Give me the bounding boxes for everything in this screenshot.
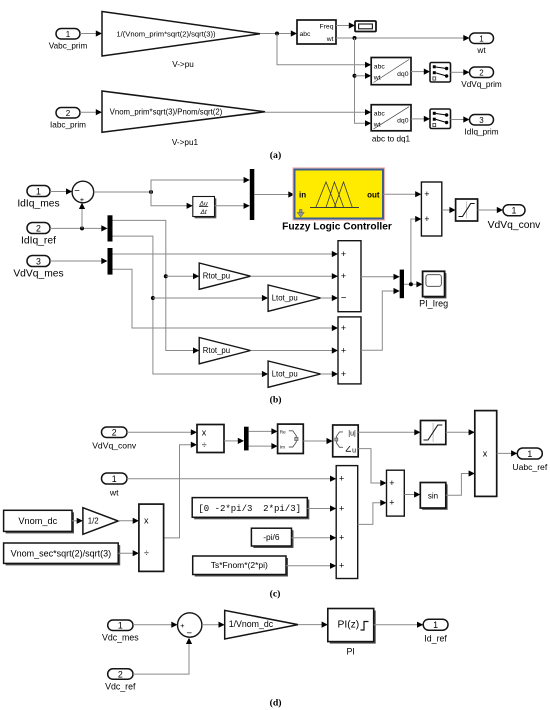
- svg-text:1: 1: [66, 30, 71, 39]
- wire gain V->pu1 to abc input of abc to dq1: [265, 109, 371, 115]
- Real-Imag to Complex block: [278, 424, 304, 453]
- svg-text:1: 1: [433, 620, 438, 630]
- svg-text:+: +: [341, 323, 346, 333]
- wire sum5 to saturation: [442, 207, 456, 213]
- svg-text:x: x: [202, 427, 207, 437]
- wire gain to PI block: [298, 622, 328, 628]
- wire fuzzy out to sum5: [383, 191, 421, 197]
- wire Freq to display: [336, 22, 355, 28]
- wire gain 1/2 to X2: [118, 518, 139, 524]
- selector 2: [430, 109, 451, 129]
- svg-text:3: 3: [36, 257, 41, 267]
- block Freq/wt (PLL): [297, 20, 336, 44]
- svg-text:Rtot_pu: Rtot_pu: [203, 272, 230, 281]
- svg-text:2: 2: [36, 224, 41, 234]
- svg-text:|u|: |u|: [348, 431, 356, 438]
- svg-text:+: +: [341, 249, 346, 259]
- svg-text:wt: wt: [109, 488, 119, 498]
- svg-text:Id_ref: Id_ref: [424, 634, 447, 644]
- wire sum circle out with junction: [94, 177, 250, 209]
- svg-text:+: +: [180, 621, 185, 630]
- product block x/ (divide): [197, 425, 224, 453]
- scope PI_Ireg: [419, 271, 448, 308]
- svg-text:wt: wt: [476, 46, 486, 55]
- svg-text:1/2: 1/2: [88, 517, 99, 526]
- constant Ts*Fnom*(2*pi): [193, 556, 288, 577]
- wires demux3 to Re-Im block: [249, 428, 278, 449]
- wire sum3 out up to sum4 input2: [358, 500, 387, 525]
- wire constant1 to sum3 input2: [307, 505, 336, 511]
- svg-text:+: +: [341, 271, 346, 281]
- svg-text:Iabc_prim: Iabc_prim: [50, 121, 86, 130]
- sum block after fuzzy: [421, 182, 441, 236]
- svg-text:-pi/6: -pi/6: [263, 532, 280, 542]
- svg-text:IdIq_ref: IdIq_ref: [21, 236, 56, 247]
- outport 2 VdVq_prim: [461, 67, 502, 89]
- gain V->pu1: [102, 91, 265, 147]
- svg-text:wt: wt: [373, 75, 381, 82]
- sin block: [420, 483, 447, 510]
- svg-text:Ts*Fnom*(2*pi): Ts*Fnom*(2*pi): [211, 560, 268, 570]
- wire VdVq_mes to demux 2: [50, 258, 108, 264]
- svg-text:x: x: [144, 516, 149, 526]
- svg-text:dq0: dq0: [397, 118, 409, 125]
- wire product1 to demux3: [224, 438, 244, 444]
- gain 1/2: [83, 508, 118, 535]
- wire sum circle to gain 1/Vnom_dc: [202, 622, 225, 628]
- wire mux to fuzzy in: [254, 191, 294, 197]
- mux 3: [400, 270, 404, 299]
- svg-text:Im: Im: [280, 444, 285, 449]
- wire demux1 bottom out to Ltot gains column: [113, 236, 269, 377]
- wire constant2 to sum3 input3: [292, 535, 337, 541]
- svg-text:[0 -2*pi/3 2*pi/3]: [0 -2*pi/3 2*pi/3]: [198, 504, 301, 514]
- svg-text:+: +: [80, 195, 85, 204]
- svg-text:2: 2: [118, 669, 123, 679]
- svg-text:dq0: dq0: [397, 71, 409, 78]
- svg-text:Ltot_pu: Ltot_pu: [272, 293, 298, 302]
- svg-text:1: 1: [527, 449, 532, 459]
- wire sum1 out to mux3: [361, 274, 400, 280]
- constant -pi/6: [251, 528, 293, 548]
- svg-text:+: +: [339, 474, 344, 484]
- wire selector 1 to outport 2: [451, 69, 470, 75]
- svg-text:abc to dq1: abc to dq1: [372, 135, 411, 144]
- svg-text:2: 2: [479, 68, 484, 77]
- svg-text:Rtot_pu: Rtot_pu: [203, 346, 230, 355]
- svg-text:1: 1: [479, 34, 484, 43]
- svg-text:1/(Vnom_prim*sqrt(2)/sqrt(3)): 1/(Vnom_prim*sqrt(2)/sqrt(3)): [116, 29, 216, 38]
- wire Rtot_pu lower to sum2: [251, 347, 339, 353]
- svg-text:+: +: [341, 369, 346, 379]
- svg-text:VdVq_prim: VdVq_prim: [461, 80, 502, 89]
- wire demux1 top out to Rtot gains column: [113, 220, 200, 353]
- svg-text:÷: ÷: [202, 440, 207, 450]
- svg-text:(d): (d): [270, 698, 282, 709]
- block abc to dq0 (first): [371, 58, 411, 85]
- inport 2 Vdc_ref: [105, 669, 136, 692]
- wire dq1 to selector 2: [411, 116, 430, 122]
- svg-text:IdIq_mes: IdIq_mes: [17, 199, 59, 210]
- wire wt to outport wt: [336, 35, 470, 41]
- svg-text:Vdc_mes: Vdc_mes: [102, 633, 139, 643]
- sum1 block (+ + -): [338, 241, 361, 312]
- svg-text:1: 1: [112, 474, 117, 484]
- demux 3: [244, 427, 249, 451]
- svg-text:÷: ÷: [144, 548, 149, 558]
- wire Iabc_prim to gain V->pu1: [80, 109, 102, 115]
- inport 1 wt: [102, 473, 128, 498]
- svg-text:+: +: [339, 561, 344, 571]
- svg-text:VdVq_mes: VdVq_mes: [13, 269, 63, 280]
- svg-text:abc: abc: [300, 31, 312, 38]
- wire sum2 out up to mux3: [361, 288, 400, 350]
- wire demux2 bottom out to sum2 input1: [113, 269, 339, 331]
- wire Re-Im to complex-to-mag-angle: [303, 438, 332, 444]
- svg-text:+: +: [389, 498, 394, 508]
- outport 1 Id_ref: [423, 619, 448, 643]
- svg-text:abc: abc: [374, 110, 386, 117]
- svg-text:+: +: [341, 345, 346, 355]
- demux 2 (VdVq_mes): [108, 248, 113, 275]
- svg-text:Vnom_sec*sqrt(2)/sqrt(3): Vnom_sec*sqrt(2)/sqrt(3): [11, 548, 112, 558]
- svg-text:−: −: [341, 293, 347, 304]
- wire |u| to saturation2: [358, 429, 420, 435]
- wire demux2 top out to sum1 input1: [113, 251, 339, 257]
- gain V->pu: [102, 12, 260, 70]
- outport 1 wt: [470, 33, 494, 55]
- svg-text:Vnom_dc: Vnom_dc: [18, 516, 57, 526]
- inport 1 Vabc_prim: [49, 29, 88, 51]
- constant Vnom_dc: [4, 510, 74, 533]
- wire junction down to abc input of first abc-to-dq0: [277, 34, 371, 68]
- constant Vnom_sec*sqrt(2)/sqrt(3): [4, 543, 121, 565]
- wire X2 output up to product1 divide input: [164, 442, 197, 538]
- wire X to outport Uabc_ref: [497, 450, 518, 456]
- svg-text:wt: wt: [373, 121, 381, 128]
- saturation 2: [421, 421, 446, 445]
- svg-text:2: 2: [112, 428, 117, 438]
- wire Du/Dt to mux: [215, 203, 250, 209]
- svg-text:1/Vnom_dc: 1/Vnom_dc: [229, 619, 274, 629]
- wire angle-u down to sum4 input1: [358, 449, 386, 487]
- wire Vdc_mes to sum circle: [133, 622, 178, 628]
- sum circle (Vdc error): [178, 613, 202, 639]
- wire Vdc_ref up into sum circle: [133, 638, 192, 674]
- svg-text:+: +: [424, 189, 429, 199]
- selector 1: [430, 63, 451, 83]
- svg-text:1: 1: [512, 205, 517, 215]
- outport 1 Uabc_ref: [512, 448, 547, 472]
- wire PI to outport Id_ref: [374, 622, 424, 628]
- gain 1/Vnom_dc: [225, 610, 298, 639]
- wire Ltot_pu to sum1: [321, 295, 338, 301]
- inport 3 VdVq_mes: [13, 256, 63, 280]
- svg-text:(c): (c): [270, 589, 281, 600]
- wire wt vertical branch: [353, 38, 372, 126]
- block abc to dq1 (second): [371, 105, 411, 144]
- svg-text:VdVq_conv: VdVq_conv: [488, 220, 542, 231]
- svg-text:V->pu1: V->pu1: [172, 138, 199, 147]
- outport 3 IdIq_prim: [464, 115, 498, 137]
- svg-text:in: in: [299, 191, 306, 200]
- svg-text:u: u: [352, 447, 356, 454]
- wire selector 2 to outport 3: [451, 116, 470, 122]
- saturation block: [456, 199, 478, 221]
- wire Rtot_pu to sum1: [251, 273, 339, 279]
- svg-text:Ltot_pu: Ltot_pu: [272, 369, 298, 378]
- PI(z) block: [328, 609, 376, 657]
- svg-text:+: +: [339, 533, 344, 543]
- wire Vnom_dc to gain 1/2: [72, 518, 83, 524]
- svg-text:Vabc_prim: Vabc_prim: [49, 42, 88, 51]
- demux 1 (IdIq_ref): [108, 215, 113, 241]
- svg-text:VdVq_conv: VdVq_conv: [92, 441, 137, 451]
- svg-text:+: +: [424, 214, 429, 224]
- wire IdIq_mes to sum circle: [50, 188, 72, 194]
- svg-text:(a): (a): [270, 150, 281, 161]
- Fuzzy Logic Controller block: [282, 168, 392, 233]
- gain Rtot_pu (upper): [199, 263, 250, 289]
- svg-text:PI: PI: [347, 647, 355, 657]
- tall product X: [475, 411, 497, 497]
- svg-text:(b): (b): [270, 395, 282, 406]
- svg-text:x: x: [483, 449, 488, 459]
- svg-text:Fuzzy Logic Controller: Fuzzy Logic Controller: [282, 222, 392, 233]
- wire saturation to outport VdVq_conv: [478, 207, 503, 213]
- wire dq0 to selector 1: [411, 69, 430, 75]
- svg-text:Freq: Freq: [320, 24, 334, 31]
- svg-text:+: +: [389, 478, 394, 488]
- svg-text:PI_Ireg: PI_Ireg: [419, 299, 448, 309]
- svg-text:Vdc_ref: Vdc_ref: [105, 681, 136, 691]
- product X2 (x /): [139, 504, 164, 571]
- svg-text:3: 3: [479, 116, 484, 125]
- outport 1 VdVq_conv: [488, 205, 542, 231]
- gain Rtot_pu (lower): [199, 338, 250, 364]
- svg-text:wt: wt: [326, 36, 334, 43]
- sum4 block (+ +): [387, 470, 405, 516]
- wire VdVq_conv to product1: [127, 429, 197, 435]
- wire sin up to product X input2: [446, 470, 475, 495]
- discrete derivative block Du/Dt: [193, 197, 217, 219]
- gain Ltot_pu (upper): [268, 285, 321, 311]
- wire saturation2 to product X: [446, 429, 475, 435]
- svg-text:Uabc_ref: Uabc_ref: [512, 462, 547, 472]
- wire IdIq_ref to demux 1: [50, 225, 108, 231]
- svg-text:sin: sin: [428, 491, 438, 500]
- wire constant3 to sum3 input4: [286, 563, 336, 569]
- display block (Freq): [355, 21, 376, 32]
- wire mux3 to scope with junction: [404, 281, 423, 287]
- wire mux3 junction up to sum5 input2: [411, 216, 422, 284]
- inport 2 Iabc_prim: [50, 108, 86, 130]
- inport 1 Vdc_mes: [102, 620, 139, 643]
- inport 2 IdIq_ref: [21, 223, 56, 247]
- wire branch up into sum circle + input: [79, 203, 85, 229]
- wire Vnom_sec to X2: [118, 550, 139, 556]
- svg-text:Vnom_prim*sqrt(3)/Pnom/sqrt(2): Vnom_prim*sqrt(3)/Pnom/sqrt(2): [110, 107, 223, 116]
- svg-text:V->pu: V->pu: [172, 60, 194, 69]
- sum3 block (+ + + +): [336, 466, 358, 579]
- svg-text:abc: abc: [374, 63, 386, 70]
- svg-text:Δt: Δt: [199, 209, 207, 216]
- svg-text:IdIq_prim: IdIq_prim: [464, 128, 498, 137]
- constant [0 -2*pi/3 2*pi/3]: [192, 498, 309, 520]
- svg-text:−: −: [187, 628, 193, 639]
- gain Ltot_pu (lower): [268, 361, 321, 387]
- svg-text:out: out: [367, 191, 380, 200]
- inport 2 VdVq_conv: [92, 427, 137, 451]
- wire gain V->pu to abc input of Freq block: [260, 30, 297, 36]
- svg-text:1: 1: [118, 621, 123, 631]
- svg-text:2: 2: [66, 109, 71, 118]
- wire sum4 to sin: [404, 491, 420, 497]
- sum circle (error): [72, 181, 94, 204]
- mux into fuzzy: [250, 169, 255, 220]
- wire wt to sum3 input1: [127, 476, 336, 482]
- inport 1 IdIq_mes: [17, 186, 59, 210]
- sum2 block (+ + +): [338, 317, 361, 384]
- Complex to Magnitude-Angle block: [333, 425, 359, 457]
- wire Vabc_prim to gain V->pu: [80, 30, 102, 36]
- svg-text:+: +: [339, 503, 344, 513]
- svg-text:1: 1: [36, 187, 41, 197]
- svg-text:PI(z): PI(z): [338, 619, 360, 630]
- wire Ltot_pu lower to sum2: [321, 371, 338, 377]
- svg-text:Re: Re: [280, 430, 286, 435]
